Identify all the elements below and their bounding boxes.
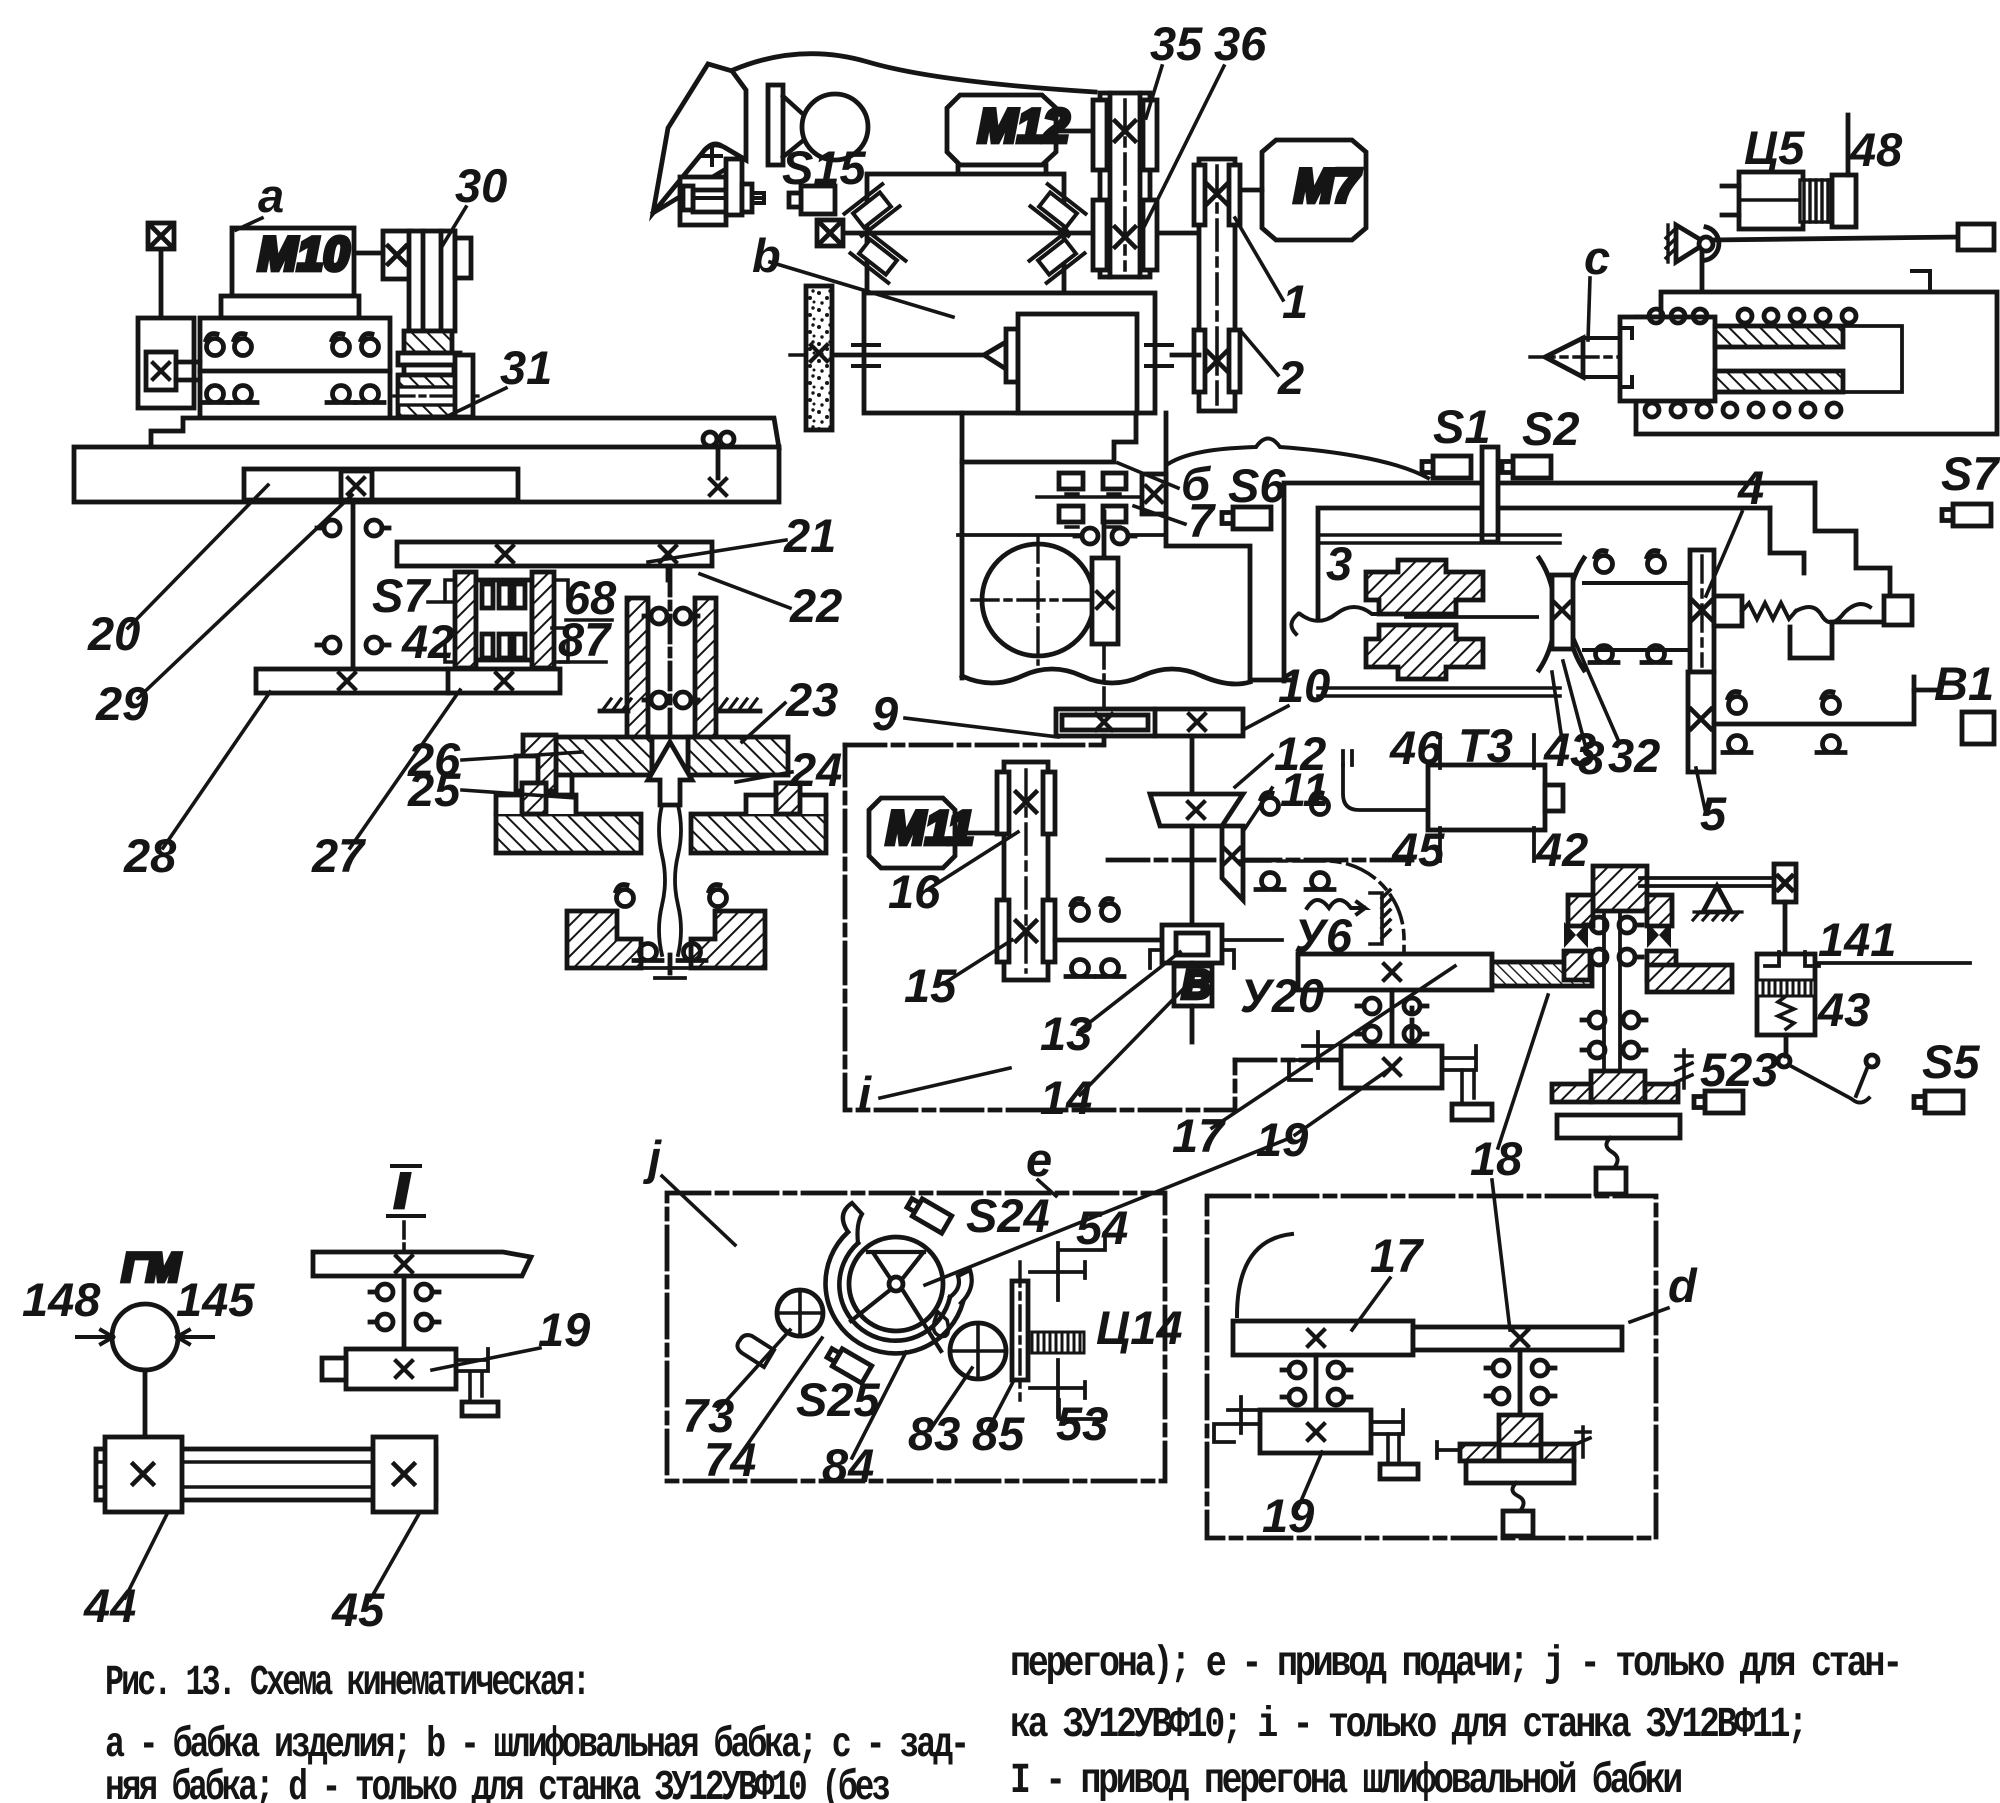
svg-text:35: 35 [1150,17,1203,70]
svg-text:15: 15 [904,959,957,1012]
svg-text:5: 5 [1700,787,1727,840]
svg-text:42: 42 [1535,823,1588,876]
svg-text:16: 16 [888,865,941,918]
svg-text:43: 43 [1817,983,1870,1036]
svg-text:Ц14: Ц14 [1096,1301,1183,1354]
svg-text:d: d [1668,1259,1698,1312]
svg-text:7: 7 [1188,494,1216,547]
svg-text:45: 45 [1391,823,1445,876]
svg-text:перегона); е - привод подачи;: перегона); е - привод подачи; j - только… [1010,1639,1900,1688]
svg-text:31: 31 [500,341,552,394]
svg-text:87: 87 [558,613,612,666]
svg-text:14: 14 [1040,1071,1092,1124]
svg-text:74: 74 [704,1433,756,1486]
svg-text:M7: M7 [1294,159,1361,212]
svg-text:У6: У6 [1294,909,1353,962]
svg-text:i: i [858,1067,872,1120]
svg-text:M12: M12 [978,99,1069,152]
svg-text:36: 36 [1214,17,1267,70]
svg-text:148: 148 [22,1273,101,1326]
svg-text:20: 20 [87,607,140,660]
svg-text:141: 141 [1818,913,1896,966]
svg-text:S25: S25 [796,1373,880,1426]
svg-text:10: 10 [1278,659,1330,712]
svg-text:48: 48 [1849,123,1903,176]
svg-text:18: 18 [1470,1132,1523,1185]
svg-text:17: 17 [1172,1109,1226,1162]
svg-text:2: 2 [1277,351,1304,404]
svg-text:Рис. 13. Схема кинематическая:: Рис. 13. Схема кинематическая: [105,1658,588,1707]
svg-text:S7: S7 [1941,447,2000,500]
svg-text:44: 44 [83,1579,136,1632]
svg-text:23: 23 [785,673,838,726]
svg-text:32: 32 [1608,729,1660,782]
svg-text:I: I [395,1164,409,1217]
svg-text:25: 25 [407,763,461,816]
svg-text:85: 85 [972,1407,1025,1460]
svg-text:21: 21 [783,509,836,562]
svg-text:У20: У20 [1240,969,1324,1022]
svg-text:M11: M11 [886,801,974,854]
svg-text:83: 83 [908,1407,960,1460]
svg-text:S15: S15 [782,141,866,194]
svg-text:ГМ: ГМ [122,1246,182,1290]
svg-text:I - привод перегона шлифовальн: I - привод перегона шлифовальной бабки [1010,1756,1681,1803]
svg-text:27: 27 [311,829,366,882]
svg-text:8: 8 [1578,731,1605,784]
svg-text:S5: S5 [1922,1035,1980,1088]
svg-text:45: 45 [331,1583,385,1636]
svg-text:9: 9 [872,687,898,740]
svg-text:13: 13 [1040,1007,1092,1060]
svg-text:1: 1 [1282,275,1308,328]
svg-text:84: 84 [822,1439,874,1492]
svg-text:b: b [752,229,781,282]
svg-text:M10: M10 [258,227,349,280]
svg-text:3: 3 [1326,537,1352,590]
svg-text:S1: S1 [1433,400,1491,453]
svg-text:4: 4 [1737,461,1764,514]
svg-text:няя бабка; d - только для стан: няя бабка; d - только для станка ЗУ12УВФ… [105,1763,889,1803]
svg-text:S6: S6 [1228,459,1286,512]
svg-text:ка ЗУ12УВФ10; i - только для с: ка ЗУ12УВФ10; i - только для станка ЗУ12… [1010,1700,1805,1749]
svg-text:S2: S2 [1522,402,1580,455]
svg-text:24: 24 [789,743,842,796]
svg-text:53: 53 [1056,1397,1108,1450]
svg-text:а: а [258,169,284,222]
svg-text:19: 19 [1262,1489,1314,1542]
svg-text:а - бабка изделия; b - шлифова: а - бабка изделия; b - шлифовальная бабк… [105,1720,967,1769]
svg-text:17: 17 [1370,1229,1424,1282]
svg-text:54: 54 [1076,1201,1128,1254]
svg-text:Ц5: Ц5 [1744,121,1805,174]
svg-text:В1: В1 [1934,657,1994,710]
svg-text:c: c [1584,231,1610,284]
svg-text:22: 22 [789,579,842,632]
svg-text:42: 42 [401,615,454,668]
svg-text:19: 19 [538,1303,590,1356]
svg-text:11: 11 [1280,763,1329,816]
svg-text:е: е [1026,1133,1052,1186]
svg-text:145: 145 [176,1273,255,1326]
svg-text:523: 523 [1700,1043,1778,1096]
svg-text:30: 30 [455,159,507,212]
svg-text:19: 19 [1256,1113,1308,1166]
svg-text:Т3: Т3 [1458,719,1513,772]
svg-text:S24: S24 [966,1189,1050,1242]
svg-text:29: 29 [95,677,148,730]
svg-text:46: 46 [1389,721,1443,774]
svg-text:28: 28 [123,829,177,882]
